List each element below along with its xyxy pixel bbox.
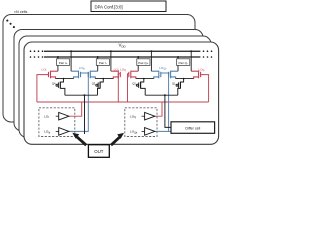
transistor Pair Q- right switch [191,71,200,79]
buffer UI1 (LO_I) [56,112,69,120]
transistor Q4 cascode of Pair I+ [56,79,65,96]
OUT port box [88,145,109,158]
cell card outline 2 (repeated cell) [14,30,203,132]
thick arrow to LO I buffers [72,133,86,146]
svg-text:Pair I-: Pair I- [99,61,107,65]
wire: Pair Q+ common source node [136,78,154,80]
DPA Conf[3:0] control box [91,1,166,12]
Pair Q- pair label box [177,59,190,66]
wire blue LO_Qb gate link [149,72,169,131]
Pair Q+ pair label box [137,59,150,66]
wire: left supply drop of Pair Q+ from rail2 [137,56,139,71]
transistor Pair I- right switch [111,71,120,79]
svg-text:Q3: Q3 [92,82,96,86]
rail continuation dots right [203,50,213,57]
wire output summing line I half [65,94,98,96]
svg-text:Q1: Q1 [172,82,176,86]
wire red drop to LO_Q buffer output [149,102,162,116]
svg-text:Pair Q+: Pair Q+ [138,61,149,65]
buffer UI2 (LO_Ib) [56,128,69,136]
wire: left supply drop of Pair Q- from rail2 [177,56,179,71]
wire output summing line Q half [145,94,178,96]
transistor Pair I+ left switch [49,71,58,79]
LO Q buffer dashed box [125,108,157,137]
LO I buffer dashed box [39,108,75,137]
svg-text:Q4: Q4 [52,82,56,86]
wire: Pair I- common source node [95,78,113,80]
thick arrow to LO Q buffers [111,133,124,145]
svg-text:Pair Q-: Pair Q- [178,61,188,65]
wire red riser to Pair Q+ left gate [128,74,129,102]
svg-text:DPA Conf.[3:0]: DPA Conf.[3:0] [95,4,123,9]
wire: right supply drop of Pair Q- from rail1 [190,50,192,71]
wire output drop Q half to differ cell [165,95,171,127]
cell card outline 3 (repeated cell) [19,36,211,138]
svg-text:Pair I+: Pair I+ [59,61,68,65]
cell card outline 4 (repeated cell) [24,42,219,144]
wire red riser to Pair Q- right gate [201,75,209,102]
transistor Pair I+ right switch [71,71,80,79]
wire red LO bus horizontal [37,101,209,103]
wire red drop to LO_I buffer output [69,102,82,116]
wire: right supply drop of Pair Q+ from rail1 [150,50,152,71]
transistor Q1 cascode of Pair Q- [176,79,184,96]
transistor Pair Q+ right switch [151,71,160,79]
transistor Q2 cascode of Pair Q+ [136,79,145,96]
wire blue link to differ cell box [169,130,171,132]
wire blue LO_Ib gate link [69,72,89,131]
wire: right supply drop of Pair I+ from rail1 [70,50,72,71]
buffer UQ2 (LO_Qb) [142,128,155,136]
transistor Pair I- left switch [88,71,97,79]
VDD supply label [119,42,126,48]
svg-text:OUT: OUT [94,149,103,154]
buffer UQ1 (LO_Q) [142,112,155,120]
Pair I+ pair label box [57,59,70,66]
transistor Q3 cascode of Pair I- [96,79,104,96]
wire: Pair Q- common source node [176,78,194,80]
transistor Pair Q- left switch [169,71,178,79]
wire: left supply drop of Pair I+ from rail2 [57,56,59,71]
VDD rail 1 (upper supply rail) [44,50,200,52]
wire red riser to Pair I- right gate [118,74,120,102]
Differ cell box [171,122,215,134]
wire output drop I half [84,95,86,134]
wire: right supply drop of Pair I- from rail1 [110,50,112,71]
wire: left supply drop of Pair I- from rail2 [97,56,99,71]
cell card outline 1 (repeated cell) [3,15,195,123]
svg-text:Differ cell: Differ cell [185,127,200,131]
transistor Pair Q+ left switch [129,71,138,79]
VDD rail 2 (lower supply rail) [44,56,200,58]
rail continuation dots left [30,50,44,57]
dotted stack continuation dots [6,20,15,29]
wire: Pair I+ common source node [56,78,74,80]
svg-text:Q2: Q2 [132,82,136,86]
svg-text:×N cells: ×N cells [14,10,28,14]
Pair I- pair label box [96,59,109,66]
wire red riser to Pair I+ left gate [37,75,49,102]
